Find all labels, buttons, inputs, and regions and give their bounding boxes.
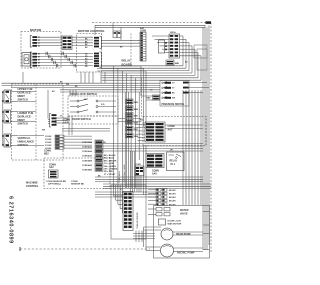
svg-text:RD: RD	[75, 86, 78, 88]
svg-text:VALVE: VALVE	[180, 212, 188, 215]
machine control box	[12, 84, 111, 189]
svg-text:PL 1: PL 1	[171, 164, 177, 166]
svg-text:4A: 4A	[84, 98, 87, 101]
svg-text:CONN AA9: CONN AA9	[82, 155, 92, 158]
wire relay dashed vertical	[130, 34, 132, 67]
connector terminal column	[148, 189, 176, 207]
connector BB5 small	[147, 95, 160, 100]
svg-text:GY: GY	[172, 83, 175, 85]
svg-text:(OPTIONAL): (OPTIONAL)	[48, 183, 61, 186]
svg-text:N.O.: N.O.	[101, 104, 105, 106]
svg-text:CONN BB5: CONN BB5	[82, 160, 92, 162]
svg-text:GY = GRAY: GY = GRAY	[104, 162, 115, 165]
svg-text:BR = BROWN: BR = BROWN	[104, 160, 117, 162]
svg-text:AA2: AA2	[49, 166, 54, 169]
svg-text:6 2716340-0899: 6 2716340-0899	[8, 196, 14, 244]
recirc pump	[161, 244, 195, 257]
svg-text:BK: BK	[85, 47, 88, 49]
svg-text:WH: WH	[66, 84, 70, 86]
loads box	[154, 206, 210, 259]
svg-text:TRANSFORMER: TRANSFORMER	[136, 212, 139, 229]
wire switch outputs	[19, 92, 45, 146]
svg-text:CONN BB4: CONN BB4	[82, 141, 93, 144]
connector AA1 block	[169, 31, 180, 58]
svg-text:CONN AA6: CONN AA6	[82, 146, 92, 149]
svg-text:RD = RED: RD = RED	[104, 171, 114, 173]
svg-text:CONTROL: CONTROL	[26, 185, 39, 188]
svg-text:VERTICAL: VERTICAL	[18, 136, 31, 140]
switch lower tub displacement	[2, 110, 18, 123]
motor capacitor	[22, 53, 31, 67]
svg-text:BB1: BB1	[175, 63, 180, 65]
wire corner bundle	[102, 66, 202, 188]
svg-text:CONN: CONN	[135, 164, 141, 166]
wire motor upper leads right	[72, 37, 93, 45]
wire AA7 leads	[135, 125, 204, 141]
svg-text:UPPER TUB: UPPER TUB	[18, 87, 33, 91]
svg-text:GY-BU: GY-BU	[45, 139, 52, 141]
pressure switch box	[160, 81, 189, 107]
svg-text:BK: BK	[120, 47, 123, 49]
junction boxes top right	[194, 45, 207, 70]
machine control inner partition	[35, 84, 37, 160]
motor box	[21, 32, 61, 69]
relay K1	[159, 40, 167, 53]
label motor control pin codes	[85, 39, 88, 69]
svg-text:WH: WH	[172, 98, 176, 100]
svg-text:SWITCH: SWITCH	[18, 143, 28, 147]
svg-text:GY-BU: GY-BU	[45, 145, 52, 147]
wire fanout AA1 left	[152, 36, 169, 53]
svg-text:WAX MOTOR: WAX MOTOR	[168, 223, 182, 226]
connector motor mating block	[62, 36, 72, 50]
connector relay board strip	[140, 27, 146, 61]
connector BB2	[44, 135, 92, 155]
switch upper tub displacement	[2, 90, 18, 103]
svg-text:BB3: BB3	[134, 102, 139, 104]
connector inline comb	[46, 52, 75, 67]
svg-text:SW A: SW A	[170, 31, 176, 34]
svg-text:BK-WH: BK-WH	[169, 197, 176, 199]
svg-text:BK = BLACK: BK = BLACK	[104, 154, 116, 157]
door switch box	[68, 116, 118, 124]
svg-text:SENSOR BD: SENSOR BD	[71, 184, 84, 186]
svg-text:CONN SENSOR BD: CONN SENSOR BD	[46, 181, 66, 183]
svg-text:RELAY: RELAY	[170, 160, 178, 163]
wire verticals center extra	[125, 92, 139, 188]
svg-text:CONN: CONN	[71, 181, 78, 183]
door lock motor	[159, 219, 182, 226]
svg-text:BK-WH: BK-WH	[169, 194, 176, 196]
connector stack BB right	[126, 99, 139, 138]
connector AA3	[49, 114, 70, 128]
svg-text:GY-BU: GY-BU	[45, 136, 52, 138]
relay PL1	[167, 152, 185, 171]
svg-text:RD: RD	[85, 66, 88, 68]
svg-text:MACHINE: MACHINE	[26, 182, 38, 185]
connector BB1	[166, 60, 180, 65]
svg-text:DOOR LOCK SWITCH: DOOR LOCK SWITCH	[70, 92, 97, 96]
wire pressure switch	[141, 83, 209, 101]
wire switch left drop	[2, 92, 4, 145]
svg-text:CONN: CONN	[140, 30, 146, 32]
wire bundle lower horizontals	[95, 144, 211, 198]
wire door area	[48, 90, 142, 135]
svg-text:CONN: CONN	[152, 170, 159, 172]
svg-text:CONN AA5: CONN AA5	[82, 164, 92, 167]
wire mid horizontal bus	[2, 83, 161, 92]
motor control box	[77, 34, 102, 73]
svg-text:DISPLACE-: DISPLACE-	[18, 114, 32, 118]
wire AA7 dashed vertical	[141, 78, 143, 117]
svg-text:SWITCH: SWITCH	[18, 98, 28, 102]
wire loads left	[144, 209, 204, 252]
wire right bus	[183, 25, 210, 250]
switch vertical unbalance	[2, 134, 18, 147]
wire top bus	[95, 25, 205, 205]
svg-text:BU: BU	[52, 91, 55, 93]
svg-text:CONN: CONN	[49, 164, 56, 166]
svg-text:(OPTIONAL) CARD: (OPTIONAL) CARD	[123, 164, 126, 183]
svg-text:CONN: CONN	[44, 151, 51, 153]
svg-text:GY-BU: GY-BU	[45, 142, 52, 144]
wire dispenser feeds	[114, 185, 156, 242]
svg-text:VT = VIOLET: VT = VIOLET	[104, 174, 116, 176]
connector motor lower	[30, 52, 40, 68]
svg-text:GN = GREEN: GN = GREEN	[104, 166, 116, 168]
svg-text:MENT: MENT	[18, 94, 26, 98]
svg-text:BU = BLUE: BU = BLUE	[104, 158, 115, 160]
wire motor control to relay	[97, 27, 146, 130]
svg-text:BU: BU	[185, 62, 188, 64]
svg-text:AA8: AA8	[152, 172, 157, 175]
svg-text:BB5: BB5	[147, 98, 151, 100]
svg-text:OR = ORANGE: OR = ORANGE	[104, 168, 118, 171]
svg-text:DRAIN PUMP: DRAIN PUMP	[176, 233, 191, 236]
connector motor control lower	[94, 52, 101, 68]
wire fanout AA1 right	[180, 36, 202, 80]
connector AA2	[49, 164, 59, 178]
drain pump	[161, 228, 191, 240]
dispenser box	[111, 185, 146, 239]
svg-text:BK: BK	[85, 44, 88, 46]
svg-text:MOTOR CONTROL: MOTOR CONTROL	[78, 29, 105, 33]
wire motor upper leads	[37, 37, 62, 45]
svg-text:BB1: BB1	[134, 116, 139, 118]
svg-text:CONN AA4: CONN AA4	[82, 150, 93, 153]
svg-text:RECIRC. PUMP: RECIRC. PUMP	[177, 252, 195, 255]
door lock switch contacts	[70, 98, 116, 113]
svg-text:PRESSURE SWITCH: PRESSURE SWITCH	[162, 104, 185, 106]
svg-text:BB2: BB2	[44, 153, 49, 155]
connector stack center	[82, 140, 103, 172]
connector motor upper	[30, 36, 40, 48]
label wire codes noise	[42, 47, 188, 192]
svg-text:DISPLACE-: DISPLACE-	[18, 90, 32, 94]
wire motor lower leads	[37, 54, 93, 66]
connector AA7	[145, 122, 175, 142]
wire top dashed border	[92, 21, 211, 252]
connector dispenser strip	[123, 192, 133, 231]
svg-text:BK-WH: BK-WH	[169, 190, 176, 192]
connector motor control upper	[94, 37, 101, 49]
svg-text:VT: VT	[120, 189, 123, 191]
door lock switch box	[68, 96, 118, 116]
svg-text:WH: WH	[42, 130, 46, 132]
svg-text:DOOR LOCK: DOOR LOCK	[168, 221, 182, 223]
svg-text:UNBALANCE: UNBALANCE	[18, 140, 35, 144]
svg-text:SWITCH: SWITCH	[18, 122, 28, 126]
svg-text:CONN BB3: CONN BB3	[82, 170, 92, 172]
legend wire colors	[104, 154, 118, 176]
svg-text:BK: BK	[172, 93, 175, 95]
conn AA7 box	[143, 117, 206, 146]
wire box drops to bus	[23, 72, 105, 83]
connector top small	[113, 23, 121, 38]
svg-text:BK-WH: BK-WH	[169, 201, 176, 203]
svg-text:BB6: BB6	[134, 109, 139, 111]
connector small BB8	[135, 164, 144, 176]
connector AA8	[146, 154, 164, 176]
wire verticals lower	[131, 145, 147, 195]
svg-text:BK: BK	[85, 41, 88, 43]
svg-text:BK: BK	[85, 39, 88, 41]
svg-text:AA9: AA9	[134, 121, 139, 124]
svg-text:VT: VT	[172, 88, 175, 90]
svg-text:DOOR SWITCH: DOOR SWITCH	[72, 117, 91, 121]
wire bottom dashed	[20, 247, 150, 251]
water valve	[156, 208, 189, 216]
